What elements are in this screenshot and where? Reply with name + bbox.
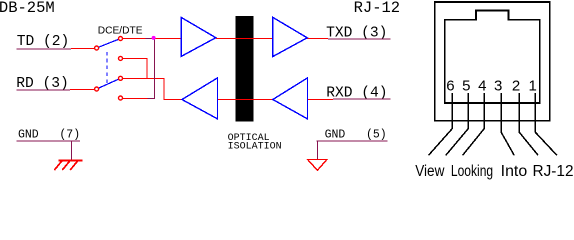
svg-text:Into: Into bbox=[501, 163, 528, 180]
svg-text:5: 5 bbox=[462, 78, 470, 95]
svg-text:Looking: Looking bbox=[451, 163, 493, 180]
svg-text:ISOLATION: ISOLATION bbox=[228, 142, 282, 153]
svg-text:TD (2): TD (2) bbox=[17, 34, 70, 50]
svg-text:RJ-12: RJ-12 bbox=[533, 163, 574, 180]
svg-text:View: View bbox=[415, 163, 445, 180]
svg-text:1: 1 bbox=[529, 78, 537, 95]
svg-text:6: 6 bbox=[446, 78, 454, 95]
svg-text:DCE/DTE: DCE/DTE bbox=[98, 25, 143, 36]
svg-text:3: 3 bbox=[494, 78, 502, 95]
svg-text:GND (5): GND (5) bbox=[325, 129, 387, 142]
svg-text:RJ-12: RJ-12 bbox=[354, 0, 401, 17]
svg-text:GND (7): GND (7) bbox=[18, 128, 80, 141]
svg-text:DB-25M: DB-25M bbox=[0, 0, 55, 17]
svg-text:2: 2 bbox=[512, 78, 520, 95]
svg-text:4: 4 bbox=[478, 78, 486, 95]
